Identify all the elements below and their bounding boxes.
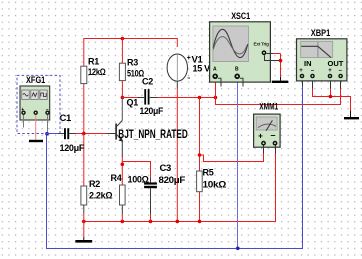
- pins below box: [302, 81, 304, 87]
- ground at ext trig: [280, 77, 282, 81]
- svg-text:R5: R5: [203, 168, 214, 178]
- capacitor C3: [144, 182, 157, 184]
- svg-text:15 V: 15 V: [193, 64, 211, 74]
- source V1: [167, 54, 210, 81]
- resistor R4: [120, 185, 126, 205]
- node blue dot bottom: [236, 247, 240, 251]
- svg-text:IN: IN: [304, 59, 312, 68]
- svg-text:–: –: [271, 130, 276, 140]
- svg-text:XMM1: XMM1: [259, 102, 278, 112]
- wire blue loop XFG1 to XBP1 IN+: [47, 86, 303, 249]
- svg-text:10kΩ: 10kΩ: [203, 180, 227, 190]
- resistor R1: [81, 66, 87, 83]
- svg-text:820μF: 820μF: [159, 175, 186, 185]
- node bottom rail dot at R4: [121, 220, 125, 224]
- node base junction dot: [82, 132, 86, 136]
- wire R1 bottom to base node: [83, 84, 85, 134]
- svg-text:R1: R1: [88, 57, 99, 67]
- waveform buttons: [22, 90, 47, 100]
- svg-text:+: +: [187, 55, 191, 62]
- capacitor C1: [64, 128, 66, 139]
- node bottom rail dot at C3: [149, 220, 153, 224]
- wire C2 right to scope A node: [150, 97, 158, 99]
- svg-text:B: B: [235, 67, 239, 73]
- node bottom rail dot at R2: [82, 220, 86, 224]
- wire VCC top rail: [84, 39, 178, 67]
- resistor R2: [81, 186, 87, 205]
- wire branch to XMM1 plus: [200, 153, 264, 162]
- wire scope B down (blue): [237, 80, 239, 249]
- wire R3 bottom to collector node: [121, 81, 123, 98]
- svg-text:2.2kΩ: 2.2kΩ: [89, 191, 112, 201]
- ground below R2: [83, 222, 85, 238]
- wire emitter to R4: [121, 141, 123, 157]
- wire C3 bottom: [150, 188, 152, 214]
- function generator XFG1: [17, 75, 60, 142]
- pins: [23, 115, 25, 128]
- svg-text:12kΩ: 12kΩ: [88, 67, 106, 77]
- transistor Q1: [115, 98, 188, 142]
- bode plotter XBP1: [297, 28, 347, 89]
- node scope A dot: [214, 96, 218, 100]
- svg-text:+: +: [328, 68, 332, 74]
- svg-text:Ext Trig: Ext Trig: [254, 42, 270, 47]
- svg-text:R2: R2: [89, 179, 100, 189]
- svg-text:120μF: 120μF: [60, 143, 85, 153]
- svg-text:XSC1: XSC1: [231, 11, 250, 21]
- capacitor C2: [144, 89, 146, 105]
- wire R2 top from base node: [83, 134, 85, 187]
- wire R3 top: [121, 39, 123, 64]
- wire XMM1 minus down: [200, 153, 276, 222]
- svg-text:A: A: [213, 67, 217, 73]
- svg-text:OUT: OUT: [328, 59, 344, 68]
- wire collector node to C2: [122, 97, 137, 99]
- svg-text:+: +: [258, 131, 263, 141]
- node bottom rail dot at R5: [198, 220, 202, 224]
- multimeter XMM1: [254, 102, 281, 154]
- node R5 top dot: [198, 153, 202, 157]
- svg-text:XBP1: XBP1: [311, 28, 331, 38]
- svg-text:C2: C2: [142, 77, 153, 87]
- wire XBP OUT+ down: [330, 89, 332, 97]
- ext trig terminal: [262, 50, 267, 55]
- wire scope A down and right to XBP OUT-: [216, 80, 341, 105]
- svg-text:C3: C3: [160, 163, 172, 174]
- wire R4 bottom: [121, 205, 123, 214]
- svg-text:120μF: 120μF: [140, 106, 164, 116]
- node emitter dot: [121, 163, 125, 167]
- wire R2 bottom to rail: [83, 205, 85, 213]
- terminals: [21, 111, 49, 115]
- ground below XFG1: [29, 140, 43, 142]
- svg-text:R3: R3: [127, 58, 138, 68]
- node VCC junction dot at R3: [121, 37, 125, 41]
- resistor R5: [197, 171, 203, 192]
- wire XFG1 to C1 (blue net): [47, 133, 57, 135]
- node collector junction dot: [121, 96, 125, 100]
- node R5 tap dot: [198, 96, 202, 100]
- svg-text:XFG1: XFG1: [26, 75, 45, 85]
- svg-text:R4: R4: [111, 173, 122, 183]
- svg-text:+: +: [299, 68, 303, 74]
- node blue dot at XFG1: [45, 132, 49, 136]
- oscilloscope XSC1: [210, 11, 289, 87]
- wire R5 bottom: [199, 192, 201, 222]
- wire base line C1 to Q1: [76, 133, 108, 135]
- wire emitter branch to C3: [122, 162, 150, 179]
- wire R5 vertical: [199, 98, 201, 172]
- node bottom rail dot at V1: [176, 220, 180, 224]
- svg-text:Q1: Q1: [127, 98, 139, 108]
- ground below XBP1: [350, 111, 352, 117]
- svg-text:C1: C1: [60, 113, 73, 124]
- resistor R3: [119, 63, 125, 80]
- wire bottom rail: [84, 221, 200, 223]
- wire V1 minus down to bottom rail: [176, 81, 178, 88]
- wire XBP IN- to ground rail: [313, 89, 351, 112]
- svg-text:BJT_NPN_RATED: BJT_NPN_RATED: [118, 127, 188, 141]
